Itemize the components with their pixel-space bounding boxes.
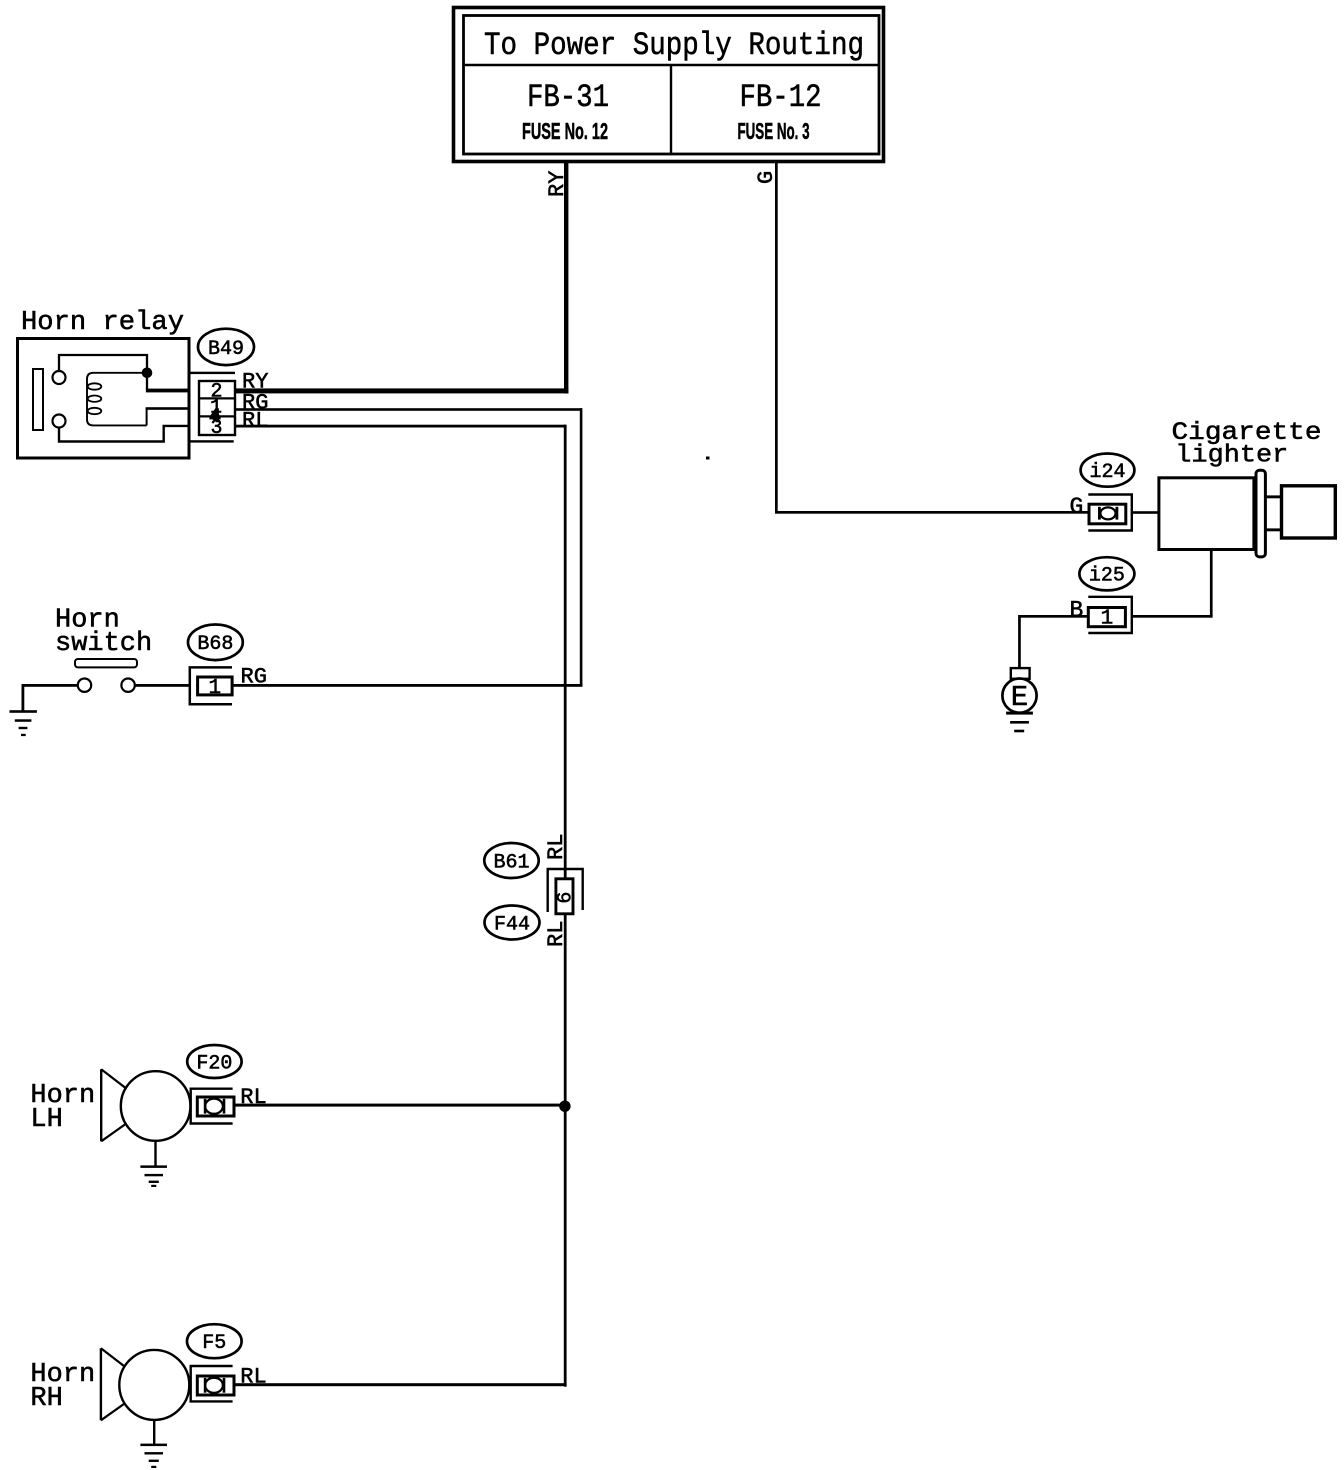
- ground at horn switch: [10, 710, 37, 736]
- ground at horn RH: [140, 1444, 167, 1468]
- connector i25 shell: [1088, 597, 1132, 633]
- horn switch actuator bar: [75, 659, 137, 667]
- svg-text:To Power Supply Routing: To Power Supply Routing: [484, 27, 864, 64]
- connector B49 oval: [198, 329, 254, 365]
- label FUSE No. 3: [738, 118, 810, 144]
- connector B49 shell stub bottom: [191, 440, 234, 442]
- relay armature bar: [33, 369, 43, 430]
- label To Power Supply Routing: [484, 27, 864, 64]
- net FB-12: [740, 79, 822, 116]
- connector F20 pin box: [197, 1097, 234, 1116]
- relay wire contact to pin 3: [59, 426, 191, 442]
- wire horn LH to trunk: [234, 1104, 565, 1107]
- wire label G (rotated): [754, 171, 779, 184]
- horn LH body: [121, 1071, 191, 1141]
- svg-text:switch: switch: [55, 629, 152, 659]
- label Horn RH: [30, 1360, 95, 1414]
- connector B61/F44 pin box: [556, 879, 573, 914]
- pin 1: [210, 396, 222, 419]
- wire label RL at F5: [240, 1364, 266, 1389]
- connector i24 shell: [1088, 495, 1132, 531]
- svg-text:FB-12: FB-12: [740, 79, 822, 116]
- ground at horn LH: [140, 1165, 167, 1187]
- pin 1 of B68: [208, 677, 221, 700]
- pin 2: [210, 380, 222, 403]
- svg-text:Horn relay: Horn relay: [21, 308, 184, 338]
- connector F5 shell: [191, 1366, 233, 1401]
- junction dot horn LH: [559, 1101, 570, 1112]
- label Cigarette lighter: [1172, 418, 1322, 470]
- pin 3: [210, 417, 222, 440]
- connector F20 shell: [191, 1089, 233, 1124]
- connector i24 oval: [1081, 454, 1135, 487]
- wire i25 to ground E: [1018, 615, 1088, 669]
- label Horn switch: [55, 606, 152, 660]
- label Horn relay: [21, 308, 184, 338]
- stray ink speck: [706, 457, 710, 460]
- svg-text:B68: B68: [197, 633, 233, 656]
- connector i25 pin box: [1088, 608, 1125, 627]
- cigarette lighter knob: [1282, 486, 1336, 538]
- wire label RL above B61 (rotated): [544, 834, 569, 860]
- svg-text:1: 1: [1101, 608, 1114, 631]
- connector F5 pin box: [197, 1376, 234, 1395]
- wire label RL below F44 (rotated): [544, 921, 569, 947]
- svg-text:i25: i25: [1089, 565, 1125, 588]
- power supply routing box outer frame: [454, 8, 884, 162]
- relay wire contact to pin 2: [59, 355, 191, 392]
- cigarette lighter body: [1159, 478, 1254, 550]
- wire i24 to lighter body: [1132, 511, 1159, 514]
- connector B61 oval: [484, 843, 538, 878]
- wire RY horizontal to relay: [235, 388, 568, 393]
- svg-text:RL: RL: [242, 409, 268, 434]
- wire RL vertical trunk: [564, 425, 567, 1387]
- connector F44 oval: [485, 906, 540, 940]
- svg-text:E: E: [1011, 681, 1028, 714]
- horn switch contact right: [121, 679, 134, 692]
- wire horn LH to ground: [154, 1141, 156, 1167]
- svg-text:B49: B49: [208, 338, 244, 361]
- svg-text:G: G: [754, 171, 779, 184]
- svg-text:F44: F44: [494, 913, 530, 936]
- horn switch contact left: [78, 679, 91, 692]
- svg-text:RL: RL: [544, 834, 569, 860]
- relay box: [18, 339, 190, 459]
- svg-text:G: G: [1070, 494, 1084, 520]
- connector F5 oval: [187, 1324, 242, 1358]
- svg-text:1: 1: [208, 677, 221, 700]
- cigarette lighter neck: [1265, 495, 1281, 531]
- wire label RL at relay: [242, 409, 268, 434]
- horn LH funnel: [101, 1069, 125, 1141]
- pin 1 of i25: [1101, 608, 1114, 631]
- connector F20 oval: [187, 1045, 241, 1078]
- wire G vertical from fuse FB-12: [775, 162, 778, 514]
- wire horn RH to trunk: [234, 1383, 567, 1386]
- connector B68 shell: [190, 667, 232, 704]
- wire label RG at relay: [242, 391, 268, 416]
- wire label B at i25: [1070, 598, 1084, 624]
- wire horn switch to RG corner: [135, 684, 583, 687]
- relay junction dot: [142, 368, 153, 379]
- pin 4 with junction dot: [209, 406, 221, 429]
- ground hatching at E: [1006, 712, 1033, 733]
- wire RG vertical: [580, 408, 583, 686]
- label Horn LH: [30, 1081, 95, 1135]
- wire RL horizontal from relay pin 3: [235, 425, 567, 428]
- cigarette lighter flange: [1256, 470, 1265, 557]
- connector i24 pin box: [1089, 504, 1126, 524]
- ground circle E: [1002, 679, 1036, 715]
- svg-text:FB-31: FB-31: [527, 79, 609, 116]
- power supply routing box inner frame: [464, 16, 880, 155]
- relay contact lower: [53, 415, 66, 428]
- svg-text:6: 6: [555, 892, 578, 904]
- connector B49 shell stub top: [191, 372, 236, 374]
- wire label RG at B68: [241, 665, 267, 690]
- net FB-31: [527, 79, 609, 116]
- svg-text:RL: RL: [544, 921, 569, 947]
- wire horn RH to ground: [153, 1420, 155, 1444]
- power supply box title divider: [464, 64, 880, 66]
- wire label G at i24: [1070, 494, 1084, 520]
- connector B49 pin box: [199, 381, 235, 435]
- wire G horizontal to cigarette lighter: [775, 511, 1089, 514]
- connector i25 oval: [1079, 557, 1134, 590]
- svg-text:FUSE No. 3: FUSE No. 3: [738, 118, 810, 144]
- svg-text:lighter: lighter: [1175, 441, 1288, 470]
- wire RG horizontal from relay pin 1: [235, 408, 582, 411]
- wire label RY at relay: [242, 369, 268, 394]
- connector B61/F44 shell: [548, 869, 583, 912]
- connector B68 pin box: [198, 677, 233, 695]
- wire RY vertical from fuse FB-31: [564, 162, 568, 394]
- svg-text:i24: i24: [1089, 461, 1125, 484]
- svg-text:B: B: [1070, 598, 1084, 624]
- svg-text:F5: F5: [202, 1332, 226, 1355]
- svg-text:F20: F20: [196, 1052, 232, 1075]
- wire lighter body down: [1133, 550, 1213, 618]
- svg-text:RH: RH: [30, 1384, 62, 1414]
- power supply box cell divider: [670, 65, 672, 154]
- relay contact upper: [53, 371, 66, 384]
- wire label RL at F20: [240, 1085, 266, 1110]
- svg-text:LH: LH: [30, 1105, 62, 1135]
- svg-text:RG: RG: [241, 665, 267, 690]
- svg-text:3: 3: [210, 417, 222, 440]
- wire switch to ground: [22, 684, 78, 712]
- label FUSE No. 12: [522, 118, 608, 144]
- horn RH body: [119, 1350, 189, 1420]
- svg-text:RY: RY: [545, 171, 570, 197]
- svg-text:FUSE No. 12: FUSE No. 12: [522, 118, 608, 144]
- ground bolt box: [1011, 668, 1030, 679]
- connector B68 oval: [188, 625, 243, 661]
- wire label RY (rotated): [545, 171, 570, 197]
- svg-text:B61: B61: [493, 851, 529, 874]
- horn RH funnel: [101, 1348, 125, 1420]
- relay coil: [87, 373, 191, 426]
- pin 6 of B61/F44 (rotated): [555, 892, 578, 904]
